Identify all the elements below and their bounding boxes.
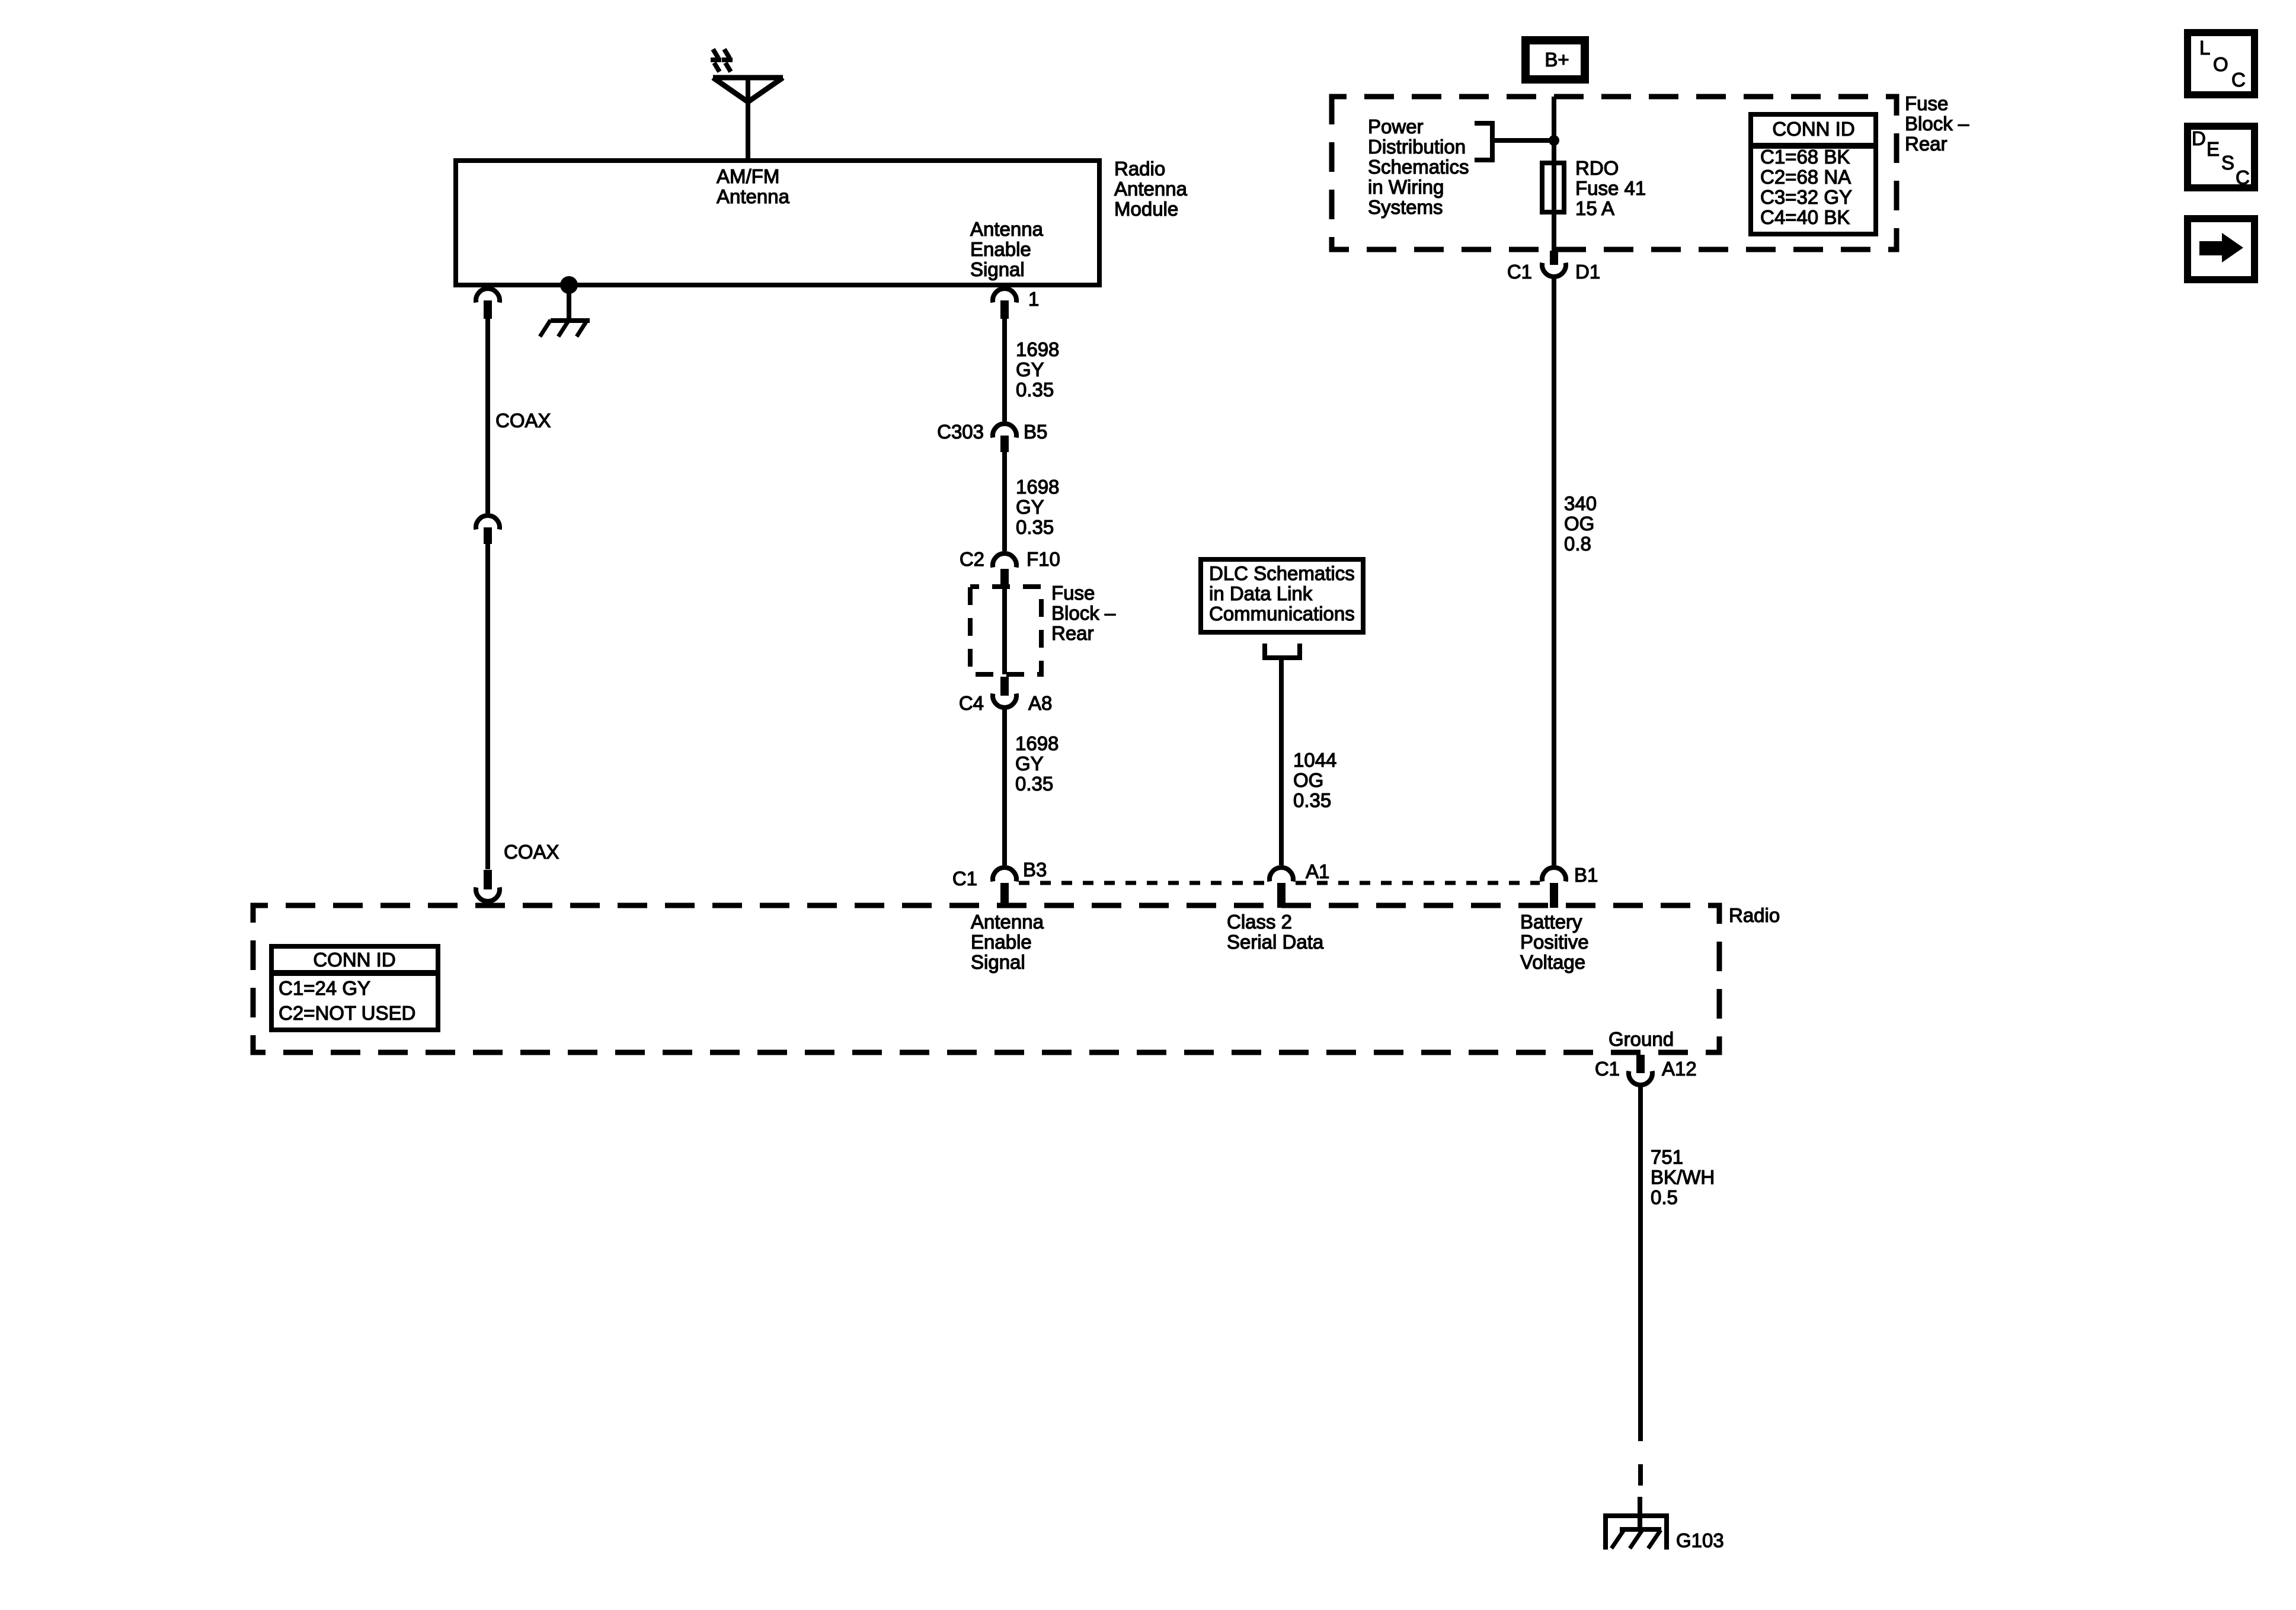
label B5 bbox=[1024, 421, 1047, 443]
label C4 bbox=[959, 692, 984, 714]
wire splice dash to G103 bbox=[1638, 1464, 1643, 1486]
svg-text:B1: B1 bbox=[1574, 864, 1598, 886]
label D1 bbox=[1575, 261, 1600, 283]
svg-text:GY: GY bbox=[1015, 753, 1044, 774]
svg-text:G103: G103 bbox=[1676, 1529, 1724, 1551]
dashed box: Fuse Block - Rear (small) bbox=[970, 587, 1041, 674]
svg-text:Radio: Radio bbox=[1114, 158, 1165, 180]
label Fuse Block - Rear (right) bbox=[1905, 92, 1969, 155]
connector C1 B3 bbox=[993, 868, 1016, 908]
svg-text:E: E bbox=[2207, 138, 2220, 160]
label 1698 GY 0.35 (1) bbox=[1016, 338, 1059, 401]
svg-text:C1: C1 bbox=[1595, 1058, 1620, 1080]
svg-text:in Data Link: in Data Link bbox=[1209, 582, 1313, 604]
label Radio Antenna Module bbox=[1114, 158, 1188, 220]
svg-text:O: O bbox=[2213, 53, 2228, 75]
connector A1 bbox=[1269, 868, 1293, 908]
svg-text:1698: 1698 bbox=[1016, 338, 1059, 360]
svg-text:GY: GY bbox=[1016, 496, 1044, 518]
coax connector at radio bbox=[476, 870, 500, 901]
label G103 bbox=[1676, 1529, 1724, 1551]
connector C1 A12 bbox=[1629, 1055, 1652, 1085]
svg-text:L: L bbox=[2199, 37, 2210, 59]
rows CONN ID (fuse block) bbox=[1760, 146, 1852, 228]
label Radio bbox=[1729, 904, 1780, 926]
svg-text:C1=24 GY: C1=24 GY bbox=[279, 977, 370, 999]
svg-text:0.35: 0.35 bbox=[1015, 773, 1053, 795]
connector C4 A8 bbox=[993, 677, 1016, 708]
label C2 bbox=[960, 548, 984, 570]
label CONN ID (fuse block) bbox=[1772, 118, 1854, 140]
label Fuse Block - Rear (small) bbox=[1051, 582, 1116, 644]
svg-text:B5: B5 bbox=[1024, 421, 1047, 443]
svg-text:Rear: Rear bbox=[1051, 622, 1094, 644]
wire 340 OG bbox=[1552, 278, 1556, 865]
svg-text:C303: C303 bbox=[937, 421, 984, 443]
svg-text:Ground: Ground bbox=[1609, 1028, 1674, 1050]
svg-text:Voltage: Voltage bbox=[1520, 951, 1585, 973]
svg-text:Antenna: Antenna bbox=[1114, 178, 1188, 200]
wire coax lower segment bbox=[485, 544, 490, 869]
svg-text:Signal: Signal bbox=[970, 258, 1025, 280]
svg-text:BK/WH: BK/WH bbox=[1651, 1166, 1715, 1188]
connector at antenna module coax output bbox=[476, 289, 500, 319]
svg-text:A12: A12 bbox=[1662, 1058, 1697, 1080]
label A12 bbox=[1662, 1058, 1697, 1080]
svg-text:GY: GY bbox=[1016, 359, 1044, 380]
dashed box: Fuse Block - Rear bbox=[1332, 97, 1897, 249]
svg-text:COAX: COAX bbox=[504, 841, 559, 863]
chassis ground symbol bbox=[540, 320, 590, 337]
dotted line B3-A1-B1 bbox=[1019, 881, 1540, 885]
B+ battery symbol bbox=[1526, 40, 1585, 79]
antenna symbol triangle bbox=[713, 78, 783, 102]
svg-text:Fuse 41: Fuse 41 bbox=[1575, 177, 1646, 199]
wire 1044 OG bbox=[1279, 658, 1284, 865]
label Battery Positive Voltage bbox=[1520, 911, 1589, 973]
svg-text:0.8: 0.8 bbox=[1564, 533, 1591, 555]
svg-text:0.5: 0.5 bbox=[1651, 1186, 1678, 1208]
label C1 (A12) bbox=[1595, 1058, 1620, 1080]
connector C1 D1 bbox=[1542, 251, 1566, 277]
label F10 bbox=[1027, 548, 1060, 570]
bracket under DLC box bbox=[1265, 644, 1300, 658]
svg-text:A1: A1 bbox=[1306, 860, 1329, 882]
svg-text:in Wiring: in Wiring bbox=[1368, 176, 1444, 198]
svg-text:CONN ID: CONN ID bbox=[1772, 118, 1854, 140]
svg-text:C1=68 BK: C1=68 BK bbox=[1760, 146, 1850, 168]
svg-text:Block –: Block – bbox=[1051, 602, 1116, 624]
antenna wave mark 2 bbox=[722, 49, 733, 72]
wire 1698 GY segment 3 bbox=[1002, 709, 1007, 865]
svg-text:Serial Data: Serial Data bbox=[1227, 931, 1324, 953]
icon LOC letters bbox=[2199, 37, 2246, 91]
svg-text:1044: 1044 bbox=[1293, 749, 1336, 771]
label 751 BK/WH 0.5 bbox=[1651, 1146, 1715, 1208]
svg-text:0.35: 0.35 bbox=[1016, 516, 1054, 538]
svg-text:Power: Power bbox=[1368, 116, 1424, 137]
junction dot at fuse feed bbox=[1549, 135, 1559, 146]
svg-text:OG: OG bbox=[1564, 513, 1594, 534]
wire to chassis ground bbox=[567, 285, 571, 321]
label Ground bbox=[1609, 1028, 1674, 1050]
svg-text:Signal: Signal bbox=[971, 951, 1025, 973]
svg-text:Enable: Enable bbox=[971, 931, 1032, 953]
svg-text:1698: 1698 bbox=[1015, 732, 1059, 754]
svg-text:D1: D1 bbox=[1575, 261, 1600, 283]
label B1 bbox=[1574, 864, 1598, 886]
svg-text:D: D bbox=[2192, 127, 2206, 149]
svg-text:Distribution: Distribution bbox=[1368, 136, 1466, 158]
svg-text:Battery: Battery bbox=[1520, 911, 1582, 933]
svg-text:751: 751 bbox=[1651, 1146, 1683, 1168]
label COAX upper bbox=[495, 409, 551, 431]
connector pin 1 bbox=[993, 289, 1016, 319]
svg-text:AM/FM: AM/FM bbox=[717, 165, 779, 187]
icon DESC box bbox=[2188, 126, 2255, 188]
connector C2 F10 bbox=[993, 553, 1016, 589]
label C303 bbox=[937, 421, 984, 443]
svg-text:S: S bbox=[2221, 152, 2234, 174]
wire 751 BK/WH bbox=[1638, 1086, 1643, 1441]
label A1 bbox=[1306, 860, 1329, 882]
svg-text:C4=40 BK: C4=40 BK bbox=[1760, 206, 1850, 228]
svg-text:Class 2: Class 2 bbox=[1227, 911, 1292, 933]
svg-text:C: C bbox=[2231, 69, 2246, 91]
label B+ bbox=[1544, 49, 1569, 71]
connector B1 bbox=[1542, 868, 1566, 908]
svg-text:0.35: 0.35 bbox=[1293, 789, 1331, 811]
antenna symbol mast bbox=[746, 78, 750, 158]
icon arrow box bbox=[2188, 219, 2255, 280]
label 1698 GY 0.35 (2) bbox=[1016, 476, 1059, 538]
label CONN ID (radio) bbox=[313, 949, 395, 971]
label DLC Schematics bbox=[1209, 562, 1355, 625]
svg-text:DLC Schematics: DLC Schematics bbox=[1209, 562, 1355, 584]
table CONN ID (radio) bbox=[271, 946, 438, 1030]
svg-text:COAX: COAX bbox=[495, 409, 551, 431]
svg-text:C2=68 NA: C2=68 NA bbox=[1760, 166, 1851, 188]
svg-text:OG: OG bbox=[1293, 769, 1323, 791]
label C1 (D1) bbox=[1507, 261, 1532, 283]
label 1698 GY 0.35 (3) bbox=[1015, 732, 1059, 795]
inline coax connector bbox=[476, 516, 500, 544]
svg-text:B+: B+ bbox=[1544, 49, 1569, 71]
svg-text:15 A: 15 A bbox=[1575, 197, 1614, 219]
svg-text:Rear: Rear bbox=[1905, 133, 1948, 155]
svg-text:1698: 1698 bbox=[1016, 476, 1059, 498]
svg-text:C4: C4 bbox=[959, 692, 984, 714]
svg-text:F10: F10 bbox=[1027, 548, 1060, 570]
label Antenna Enable Signal (pin 1) bbox=[970, 218, 1044, 280]
bracket Power Distribution bbox=[1475, 123, 1554, 160]
box: Radio Antenna Module bbox=[456, 161, 1099, 285]
label A8 bbox=[1028, 692, 1052, 714]
svg-text:Radio: Radio bbox=[1729, 904, 1780, 926]
label 340 OG 0.8 bbox=[1564, 492, 1597, 555]
label B3 bbox=[1023, 859, 1047, 881]
dashed box: Radio bbox=[253, 905, 1719, 1052]
svg-text:Communications: Communications bbox=[1209, 603, 1355, 625]
fuse RDO Fuse 41 bbox=[1542, 163, 1564, 212]
svg-text:C2: C2 bbox=[960, 548, 984, 570]
wire coax upper segment bbox=[485, 319, 490, 513]
label Antenna Enable Signal (radio) bbox=[971, 911, 1044, 973]
wire through small fuse box bbox=[1002, 589, 1007, 674]
svg-text:Fuse: Fuse bbox=[1905, 92, 1948, 114]
label Power Distribution Schematics bbox=[1368, 116, 1469, 218]
svg-text:Antenna: Antenna bbox=[971, 911, 1044, 933]
label RDO Fuse 41 15 A bbox=[1575, 157, 1646, 219]
label COAX lower bbox=[504, 841, 559, 863]
svg-text:Enable: Enable bbox=[970, 238, 1031, 260]
wire 1698 GY segment 1 bbox=[1002, 319, 1007, 421]
label Class 2 Serial Data bbox=[1227, 911, 1324, 953]
svg-text:RDO: RDO bbox=[1575, 157, 1619, 179]
antenna wave mark 1 bbox=[711, 49, 721, 72]
svg-text:C1: C1 bbox=[1507, 261, 1532, 283]
wire 1698 GY segment 2 bbox=[1002, 452, 1007, 551]
svg-text:Systems: Systems bbox=[1368, 196, 1443, 218]
svg-text:Positive: Positive bbox=[1520, 931, 1589, 953]
svg-text:C1: C1 bbox=[952, 868, 977, 889]
label 1044 OG 0.35 bbox=[1293, 749, 1336, 811]
icon DESC letters bbox=[2192, 127, 2250, 188]
table CONN ID (fuse block) bbox=[1751, 114, 1876, 234]
svg-text:Antenna: Antenna bbox=[970, 218, 1044, 240]
svg-text:1: 1 bbox=[1028, 288, 1039, 310]
svg-text:CONN ID: CONN ID bbox=[313, 949, 395, 971]
icon LOC box bbox=[2188, 33, 2255, 95]
svg-text:340: 340 bbox=[1564, 492, 1597, 514]
connector C303 B5 bbox=[993, 424, 1016, 452]
svg-text:C: C bbox=[2236, 167, 2250, 188]
svg-text:A8: A8 bbox=[1028, 692, 1052, 714]
svg-text:B3: B3 bbox=[1023, 859, 1047, 881]
svg-text:C3=32 GY: C3=32 GY bbox=[1760, 186, 1852, 208]
svg-text:Antenna: Antenna bbox=[717, 185, 790, 207]
label pin 1 bbox=[1028, 288, 1039, 310]
svg-text:Module: Module bbox=[1114, 198, 1178, 220]
svg-text:Block –: Block – bbox=[1905, 113, 1969, 135]
junction dot on antenna box bbox=[560, 276, 578, 294]
svg-text:Schematics: Schematics bbox=[1368, 156, 1469, 178]
wire B+ to fuse bbox=[1552, 97, 1556, 251]
label AM/FM Antenna bbox=[717, 165, 790, 207]
svg-text:Fuse: Fuse bbox=[1051, 582, 1095, 604]
ground G103 symbol bbox=[1603, 1497, 1669, 1550]
icon arrow bbox=[2199, 233, 2243, 263]
rows CONN ID (radio) bbox=[279, 977, 415, 1024]
svg-text:C2=NOT USED: C2=NOT USED bbox=[279, 1002, 415, 1024]
label C1 (B3) bbox=[952, 868, 977, 889]
svg-text:0.35: 0.35 bbox=[1016, 379, 1054, 401]
box: DLC Schematics bbox=[1201, 559, 1363, 632]
